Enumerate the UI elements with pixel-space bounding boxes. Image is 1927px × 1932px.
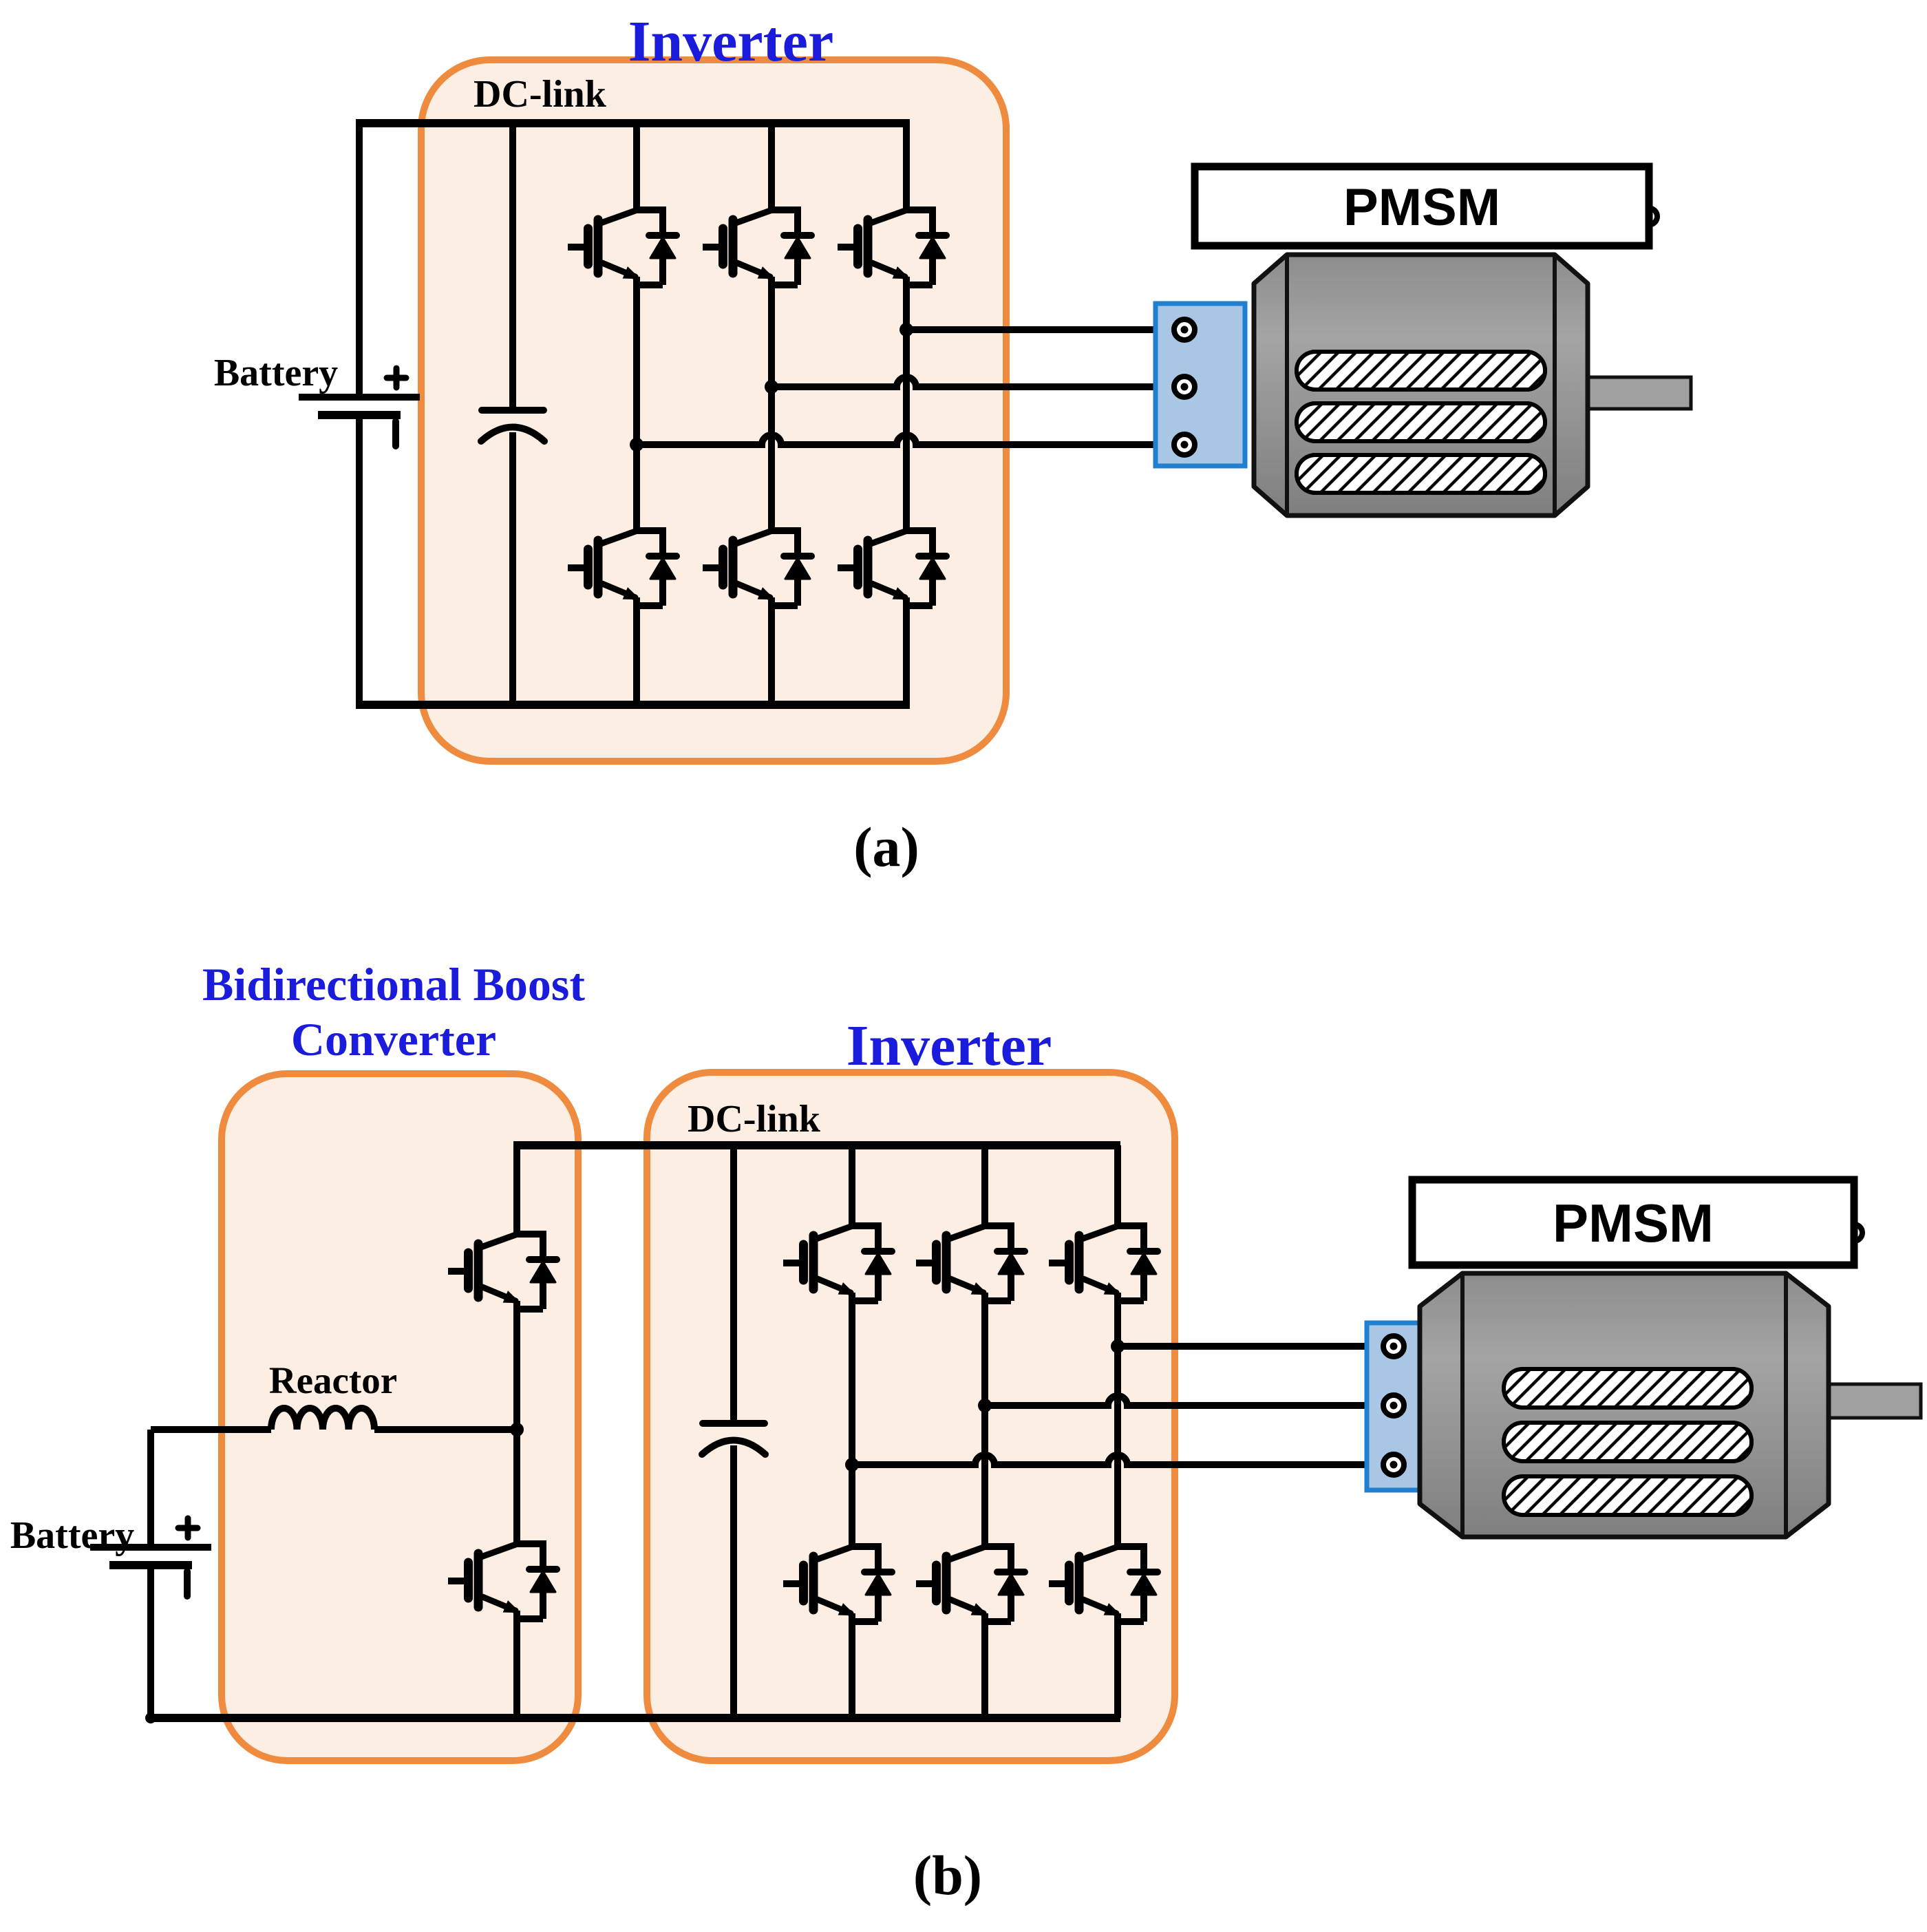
motor PMSM (b) vent 2 bbox=[1504, 1423, 1752, 1461]
IGBT Q8 boost lower bbox=[448, 1544, 557, 1619]
wire: leg middle (b) x=1431 bbox=[981, 1301, 988, 1547]
node: phase U tap (b) bbox=[1111, 1339, 1125, 1353]
wire: phase U (b) bbox=[1118, 1343, 1383, 1350]
wire: phase V (a) with hop over leg 3 bbox=[771, 377, 1174, 387]
wire: DC+ bus (a) bbox=[356, 119, 910, 127]
boost converter block (b) background bbox=[222, 1074, 578, 1761]
node: phase W tap (b) bbox=[845, 1458, 859, 1472]
svg-text:Bidirectional Boost: Bidirectional Boost bbox=[202, 958, 585, 1010]
motor PMSM (b) terminal 1 bbox=[1383, 1336, 1404, 1357]
motor PMSM (a) body bbox=[1254, 255, 1588, 516]
svg-text:Battery: Battery bbox=[214, 352, 338, 394]
svg-text:DC-link: DC-link bbox=[688, 1098, 821, 1140]
inverter block (a) background bbox=[421, 60, 1006, 761]
IGBT Q3 with diode (a top leg) bbox=[838, 210, 946, 285]
motor PMSM (b) left end cap edge bbox=[1460, 1273, 1465, 1537]
battery (b) positive plate bbox=[90, 1544, 211, 1551]
svg-text:PMSM: PMSM bbox=[1343, 178, 1500, 237]
battery (a) negative plate bbox=[318, 411, 401, 419]
wire: reactor to boost leg bbox=[374, 1426, 517, 1433]
wire: DC- bus (b) bbox=[147, 1714, 1120, 1722]
wire: leg top (a) x=1317 bbox=[903, 123, 910, 210]
IGBT Q7 boost upper bbox=[448, 1234, 557, 1309]
svg-text:(b): (b) bbox=[913, 1844, 982, 1907]
motor PMSM (b) nameplate side circle bbox=[1846, 1224, 1862, 1241]
motor PMSM (a) vent 3 bbox=[1297, 455, 1545, 493]
IGBT Q2 with diode (a top leg) bbox=[703, 210, 811, 285]
wire: boost leg to DC- bus bbox=[513, 1619, 520, 1718]
wire: leg bottom (a) x=1121 bbox=[768, 606, 775, 705]
reactor L coil bbox=[271, 1408, 374, 1430]
wire: phase W (a) with hops over legs 2 and 3 bbox=[637, 435, 1174, 445]
svg-text:PMSM: PMSM bbox=[1553, 1193, 1714, 1253]
wire: battery (b) positive riser bbox=[147, 1430, 154, 1547]
wire: leg top (b) x=1238 bbox=[849, 1145, 855, 1226]
wire: DC-link capacitor (b) bottom lead bbox=[730, 1445, 737, 1718]
wire: phase V (b) with hop over leg 3 bbox=[985, 1396, 1383, 1405]
svg-text:DC-link: DC-link bbox=[473, 73, 607, 116]
motor PMSM (b) vent 3 bbox=[1504, 1476, 1752, 1515]
wire: leg top (b) x=1431 bbox=[981, 1145, 988, 1226]
wire: phase W (b) with hops over legs 2 and 3 bbox=[852, 1455, 1383, 1465]
wire: leg bottom (a) x=1317 bbox=[903, 606, 910, 705]
wire: leg top (a) x=1121 bbox=[768, 123, 775, 210]
IGBT Q5 with diode (a bottom leg) bbox=[703, 531, 811, 606]
battery (a) plus sign bbox=[387, 368, 406, 388]
node: phase W tap (a) bbox=[630, 438, 643, 452]
motor PMSM (a) vent 1 bbox=[1297, 352, 1545, 390]
wire: leg middle (a) x=1317 bbox=[903, 285, 910, 531]
motor PMSM (a) terminal 1 bbox=[1174, 319, 1195, 340]
node: phase V tap (b) bbox=[978, 1399, 992, 1412]
battery (b) plus sign bbox=[178, 1518, 198, 1538]
IGBT Q14 with diode (b bottom leg) bbox=[1049, 1547, 1158, 1622]
svg-text:(a): (a) bbox=[853, 816, 919, 878]
inverter block (b) background bbox=[647, 1072, 1175, 1761]
capacitor C1 (a) curved plate bbox=[481, 427, 544, 442]
wire: leg bottom (b) x=1624 bbox=[1114, 1622, 1121, 1718]
wire: DC- bus (a) bbox=[356, 701, 910, 709]
motor PMSM (a) vent 2 bbox=[1297, 403, 1545, 441]
motor PMSM (a) terminal box bbox=[1156, 304, 1245, 466]
IGBT Q1 with diode (a top leg) bbox=[568, 210, 677, 285]
motor PMSM (b) terminal 3 bbox=[1383, 1454, 1404, 1475]
wire: boost leg between IGBTs bbox=[513, 1309, 520, 1544]
IGBT Q13 with diode (b bottom leg) bbox=[916, 1547, 1025, 1622]
IGBT Q9 with diode (b top leg) bbox=[783, 1226, 892, 1301]
motor PMSM (a) terminal 3 bbox=[1174, 434, 1195, 455]
wire: leg top (b) x=1624 bbox=[1114, 1145, 1121, 1226]
wire: battery (a) positive riser bbox=[356, 120, 363, 397]
node: phase U tap (a) bbox=[899, 323, 913, 337]
IGBT Q12 with diode (b bottom leg) bbox=[783, 1547, 892, 1622]
wire: battery (b) negative drop bbox=[147, 1565, 154, 1718]
motor PMSM (a) nameplate box bbox=[1195, 167, 1649, 246]
wire: leg top (a) x=925 bbox=[633, 123, 640, 210]
wire: DC+ bus (b) bbox=[513, 1141, 1120, 1149]
wire: leg middle (b) x=1624 bbox=[1114, 1301, 1121, 1547]
motor PMSM (a) nameplate side circle bbox=[1641, 209, 1657, 225]
wire: DC-link capacitor (a) top lead bbox=[509, 123, 516, 410]
node: reactor junction on boost leg bbox=[510, 1423, 524, 1436]
motor PMSM (a) terminal 2 bbox=[1174, 376, 1195, 397]
motor PMSM (b) shaft bbox=[1824, 1384, 1921, 1418]
svg-text:Inverter: Inverter bbox=[628, 10, 834, 74]
wire: battery to reactor bbox=[151, 1426, 271, 1433]
motor PMSM (b) terminal box bbox=[1367, 1323, 1422, 1490]
capacitor C2 (b) top plate bbox=[703, 1420, 765, 1427]
wire: leg middle (b) x=1238 bbox=[849, 1301, 855, 1547]
motor PMSM (a) right end cap edge bbox=[1553, 255, 1557, 516]
IGBT Q4 with diode (a bottom leg) bbox=[568, 531, 677, 606]
motor PMSM (a) left end cap edge bbox=[1285, 255, 1289, 516]
motor PMSM (b) nameplate box bbox=[1412, 1180, 1854, 1265]
svg-text:Reactor: Reactor bbox=[269, 1359, 397, 1401]
wire: phase U (a) bbox=[906, 326, 1174, 333]
battery (b) minus mark bbox=[184, 1571, 191, 1596]
IGBT Q11 with diode (b top leg) bbox=[1049, 1226, 1158, 1301]
battery (a) positive plate bbox=[299, 394, 420, 401]
wire: DC-link capacitor (b) top lead bbox=[730, 1145, 737, 1423]
wire: DC-link capacitor (a) bottom lead bbox=[509, 432, 516, 705]
IGBT Q6 with diode (a bottom leg) bbox=[838, 531, 946, 606]
wire: leg bottom (b) x=1431 bbox=[981, 1622, 988, 1718]
capacitor C2 (b) curved plate bbox=[702, 1441, 765, 1455]
wire: battery (a) negative drop bbox=[356, 415, 363, 705]
motor PMSM (a) shaft bbox=[1584, 377, 1691, 409]
svg-text:Inverter: Inverter bbox=[847, 1014, 1052, 1078]
wire: leg bottom (a) x=925 bbox=[633, 606, 640, 705]
wire: leg middle (a) x=1121 bbox=[768, 285, 775, 531]
wire: leg bottom (b) x=1238 bbox=[849, 1622, 855, 1718]
motor PMSM (b) body bbox=[1420, 1273, 1829, 1537]
node: phase V tap (a) bbox=[765, 380, 778, 394]
motor PMSM (b) vent 1 bbox=[1504, 1369, 1752, 1408]
wire: leg middle (a) x=925 bbox=[633, 285, 640, 531]
battery (a) minus mark bbox=[392, 421, 399, 446]
svg-text:Converter: Converter bbox=[291, 1013, 496, 1065]
motor PMSM (b) terminal 2 bbox=[1383, 1395, 1404, 1416]
IGBT Q10 with diode (b top leg) bbox=[916, 1226, 1025, 1301]
node: battery to bus corner (b) bbox=[145, 1712, 156, 1723]
capacitor C1 (a) top plate bbox=[482, 407, 544, 414]
battery (b) negative plate bbox=[109, 1561, 192, 1569]
wire: boost leg riser to DC+ bus bbox=[513, 1142, 520, 1234]
motor PMSM (b) right end cap edge bbox=[1784, 1273, 1788, 1537]
